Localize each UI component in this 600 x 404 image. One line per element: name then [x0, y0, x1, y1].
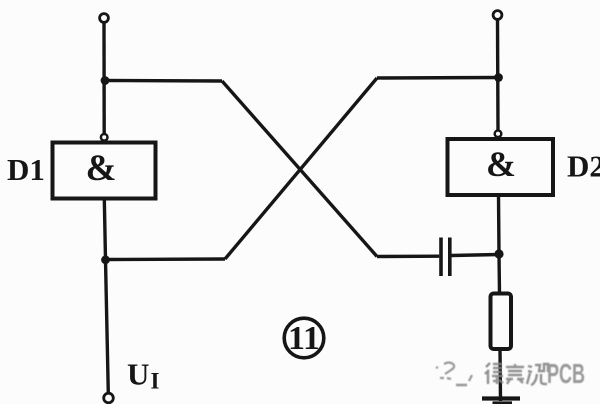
resistor R1 — [491, 294, 512, 350]
wire: gate D1 output to bottom-left junction — [104, 199, 105, 261]
node: figure number circle 11 — [284, 318, 324, 358]
svg-text:I: I — [151, 369, 160, 394]
watermark logo and text (decorative) — [436, 358, 585, 389]
svg-text:&: & — [486, 144, 516, 184]
svg-text:U: U — [127, 357, 149, 392]
wire: cross-coupling diagonal from bottom-left to top-right — [225, 78, 377, 259]
wire: resistor R1 to ground — [498, 349, 502, 401]
svg-text:&: & — [86, 148, 117, 189]
node A: junction of top-left vertical and horizontal — [101, 76, 110, 85]
wire: node D down to resistor R1 — [497, 254, 501, 294]
capacitor C1 right plate — [448, 238, 452, 277]
wire: top-left vertical from terminal to gate D1 input — [102, 23, 106, 135]
svg-text:D2: D2 — [567, 149, 600, 184]
terminal: top-left input terminal — [100, 14, 109, 23]
pin: gate D1 input bubble — [101, 134, 108, 141]
op-amp gate D1 box — [53, 143, 156, 199]
wire: top-right vertical from terminal to gate D2 input — [496, 20, 500, 132]
op-amp gate D2 box — [448, 139, 554, 195]
terminal: bottom-left U_I terminal — [104, 393, 114, 403]
svg-text:D1: D1 — [7, 152, 45, 187]
svg-text:11: 11 — [288, 320, 320, 357]
wire: cross-coupling diagonal from top-left to bottom-right — [222, 81, 377, 257]
wire: capacitor to node D — [452, 255, 500, 256]
node B: bottom-left junction — [101, 255, 110, 264]
node C: junction of top-right vertical and horizontal — [494, 73, 503, 82]
ground — [482, 396, 520, 400]
capacitor C1 left plate — [439, 238, 443, 277]
pin: gate D2 input bubble — [495, 131, 502, 138]
wire: bottom-left junction to input terminal U_I — [106, 260, 109, 394]
wire: bottom-right horizontal to capacitor — [377, 255, 439, 259]
wire: top-right horizontal — [377, 76, 499, 80]
svg-text:PCB: PCB — [547, 358, 585, 389]
wire: bottom-left horizontal — [106, 257, 226, 261]
wire: top-left horizontal — [104, 79, 222, 83]
terminal: top-right terminal — [493, 11, 502, 20]
node D: junction right side — [494, 249, 503, 258]
wire: gate D2 output down to node D — [497, 195, 501, 254]
